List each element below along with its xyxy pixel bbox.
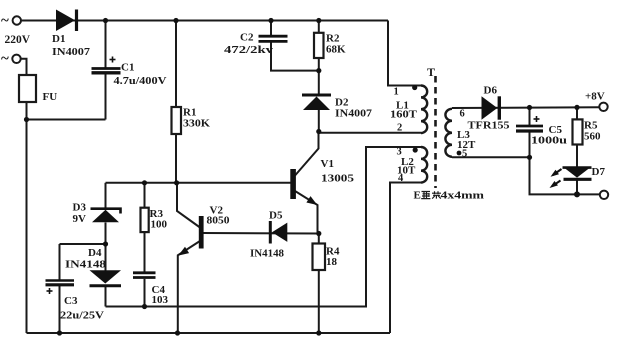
wire base node xyxy=(106,182,292,184)
wire D5 row xyxy=(204,232,319,235)
wire C1 leads xyxy=(105,21,107,69)
transformer core xyxy=(434,76,437,188)
wire left drop to ground rail xyxy=(26,120,28,334)
svg-text:D7: D7 xyxy=(592,166,606,178)
wire C4 bottom lead xyxy=(144,279,146,307)
fuse FU xyxy=(19,75,36,102)
svg-text:1000u: 1000u xyxy=(531,135,567,147)
svg-text:4: 4 xyxy=(398,173,404,184)
capacitor C3 22u/25V xyxy=(46,281,75,295)
svg-text:IN4007: IN4007 xyxy=(52,46,91,58)
svg-text:220V: 220V xyxy=(5,34,31,46)
wire R3 leads xyxy=(144,183,146,208)
wire R4 leads xyxy=(318,234,320,244)
svg-text:13005: 13005 xyxy=(321,173,355,185)
terminal output return xyxy=(600,191,608,199)
svg-text:V1: V1 xyxy=(321,158,334,170)
svg-text:IN4148: IN4148 xyxy=(250,248,284,260)
svg-text:330K: 330K xyxy=(183,118,210,130)
wire D7 bottom lead xyxy=(576,180,578,194)
wire input live lead xyxy=(21,59,27,75)
wire D3-D4 junction xyxy=(105,223,107,271)
capacitor C2 472/2kv xyxy=(259,36,288,41)
svg-text:T: T xyxy=(427,65,435,79)
wire V2 collector xyxy=(177,183,200,228)
wire R5 leads xyxy=(576,108,578,120)
transistor V1 13005 xyxy=(290,169,317,205)
transistor V2 8050 xyxy=(178,216,203,256)
svg-text:2: 2 xyxy=(397,123,402,134)
core size label E cizin 4x4mm xyxy=(414,190,485,202)
phase dot L2 xyxy=(413,147,418,152)
wire fuse to junction xyxy=(26,102,28,120)
svg-text:1: 1 xyxy=(394,87,399,98)
diode D1 IN4007 xyxy=(56,10,77,32)
wire V2 emitter drop xyxy=(178,240,202,333)
phase dot L3 xyxy=(457,151,462,156)
terminal +8V xyxy=(599,103,607,111)
wire D4 bottom lead xyxy=(105,287,107,307)
wire secondary top xyxy=(452,106,599,109)
svg-text:160T: 160T xyxy=(390,109,418,121)
diode D4 IN4148 xyxy=(90,270,122,285)
wire V1 collector xyxy=(295,132,319,176)
capacitor C1 4.7u/400V xyxy=(92,57,121,73)
svg-text:IN4148: IN4148 xyxy=(65,259,107,271)
wire top rail xyxy=(21,20,388,22)
LED D7 xyxy=(550,168,592,188)
svg-text:18: 18 xyxy=(326,256,338,268)
wire C3 top xyxy=(60,243,106,245)
svg-text:D5: D5 xyxy=(269,210,283,222)
resistor R3 100 xyxy=(141,208,149,232)
svg-text:~: ~ xyxy=(1,51,9,67)
svg-text:FU: FU xyxy=(43,91,58,103)
wire R1 leads xyxy=(175,21,177,108)
transformer L1 winding xyxy=(421,86,427,134)
wire V1 emitter to R4 xyxy=(295,191,318,234)
terminal input bottom xyxy=(12,55,20,63)
resistor R1 330K xyxy=(172,107,182,134)
capacitor C4 103 xyxy=(133,273,156,278)
wire L1 pin2 xyxy=(319,132,421,134)
wire feedback bottom xyxy=(106,147,422,307)
svg-text:560: 560 xyxy=(584,131,601,143)
wire C3 leads xyxy=(59,244,61,280)
wire L2 pin4 xyxy=(390,183,421,334)
svg-text:IN4007: IN4007 xyxy=(335,108,373,120)
svg-text:100: 100 xyxy=(151,219,168,231)
svg-text:68K: 68K xyxy=(326,44,346,56)
svg-text:103: 103 xyxy=(152,294,169,306)
svg-text:E: E xyxy=(414,190,421,202)
svg-text:5: 5 xyxy=(462,149,467,160)
wire L3 pin5 return xyxy=(452,157,600,194)
resistor R2 68K xyxy=(314,33,324,58)
resistor R5 560 xyxy=(573,119,583,144)
wire bottom rail xyxy=(27,332,391,334)
svg-text:6: 6 xyxy=(460,109,465,120)
diode D2 IN4007 xyxy=(302,95,331,110)
svg-text:+8V: +8V xyxy=(585,91,605,103)
wire C2 leads xyxy=(270,21,272,36)
svg-text:4.7u/400V: 4.7u/400V xyxy=(114,75,167,87)
wire C5 leads xyxy=(529,108,531,126)
resistor R4 18 xyxy=(313,244,326,271)
capacitor C5 1000u xyxy=(516,116,543,131)
wire L1 pin1 drop xyxy=(388,21,421,86)
svg-text:9V: 9V xyxy=(73,213,87,225)
diode D6 TFR155 xyxy=(482,96,500,119)
svg-text:8050: 8050 xyxy=(207,215,231,227)
wire R2 column xyxy=(318,21,320,33)
svg-text:C2: C2 xyxy=(240,32,254,44)
svg-text:~: ~ xyxy=(1,13,9,29)
svg-text:D6: D6 xyxy=(484,85,498,97)
svg-text:TFR155: TFR155 xyxy=(468,120,511,132)
wire D2 to collector node xyxy=(318,110,320,132)
phase dot L1 xyxy=(412,85,417,90)
svg-text:C3: C3 xyxy=(64,295,78,307)
zener D3 9V xyxy=(91,209,121,223)
svg-text:C1: C1 xyxy=(121,62,134,74)
svg-text:D1: D1 xyxy=(52,33,65,45)
wire D3 top lead xyxy=(105,183,107,208)
svg-text:4x4mm: 4x4mm xyxy=(441,190,485,202)
svg-text:472/2kv: 472/2kv xyxy=(224,44,274,56)
svg-text:D4: D4 xyxy=(88,247,102,259)
transformer L3 winding xyxy=(445,109,452,157)
svg-text:22u/25V: 22u/25V xyxy=(60,310,104,322)
transformer L2 winding xyxy=(421,147,427,183)
svg-text:D3: D3 xyxy=(73,202,87,214)
diode D5 IN4148 xyxy=(270,221,287,244)
terminal input top xyxy=(13,16,21,24)
wire junction to C1 bottom xyxy=(27,119,106,121)
